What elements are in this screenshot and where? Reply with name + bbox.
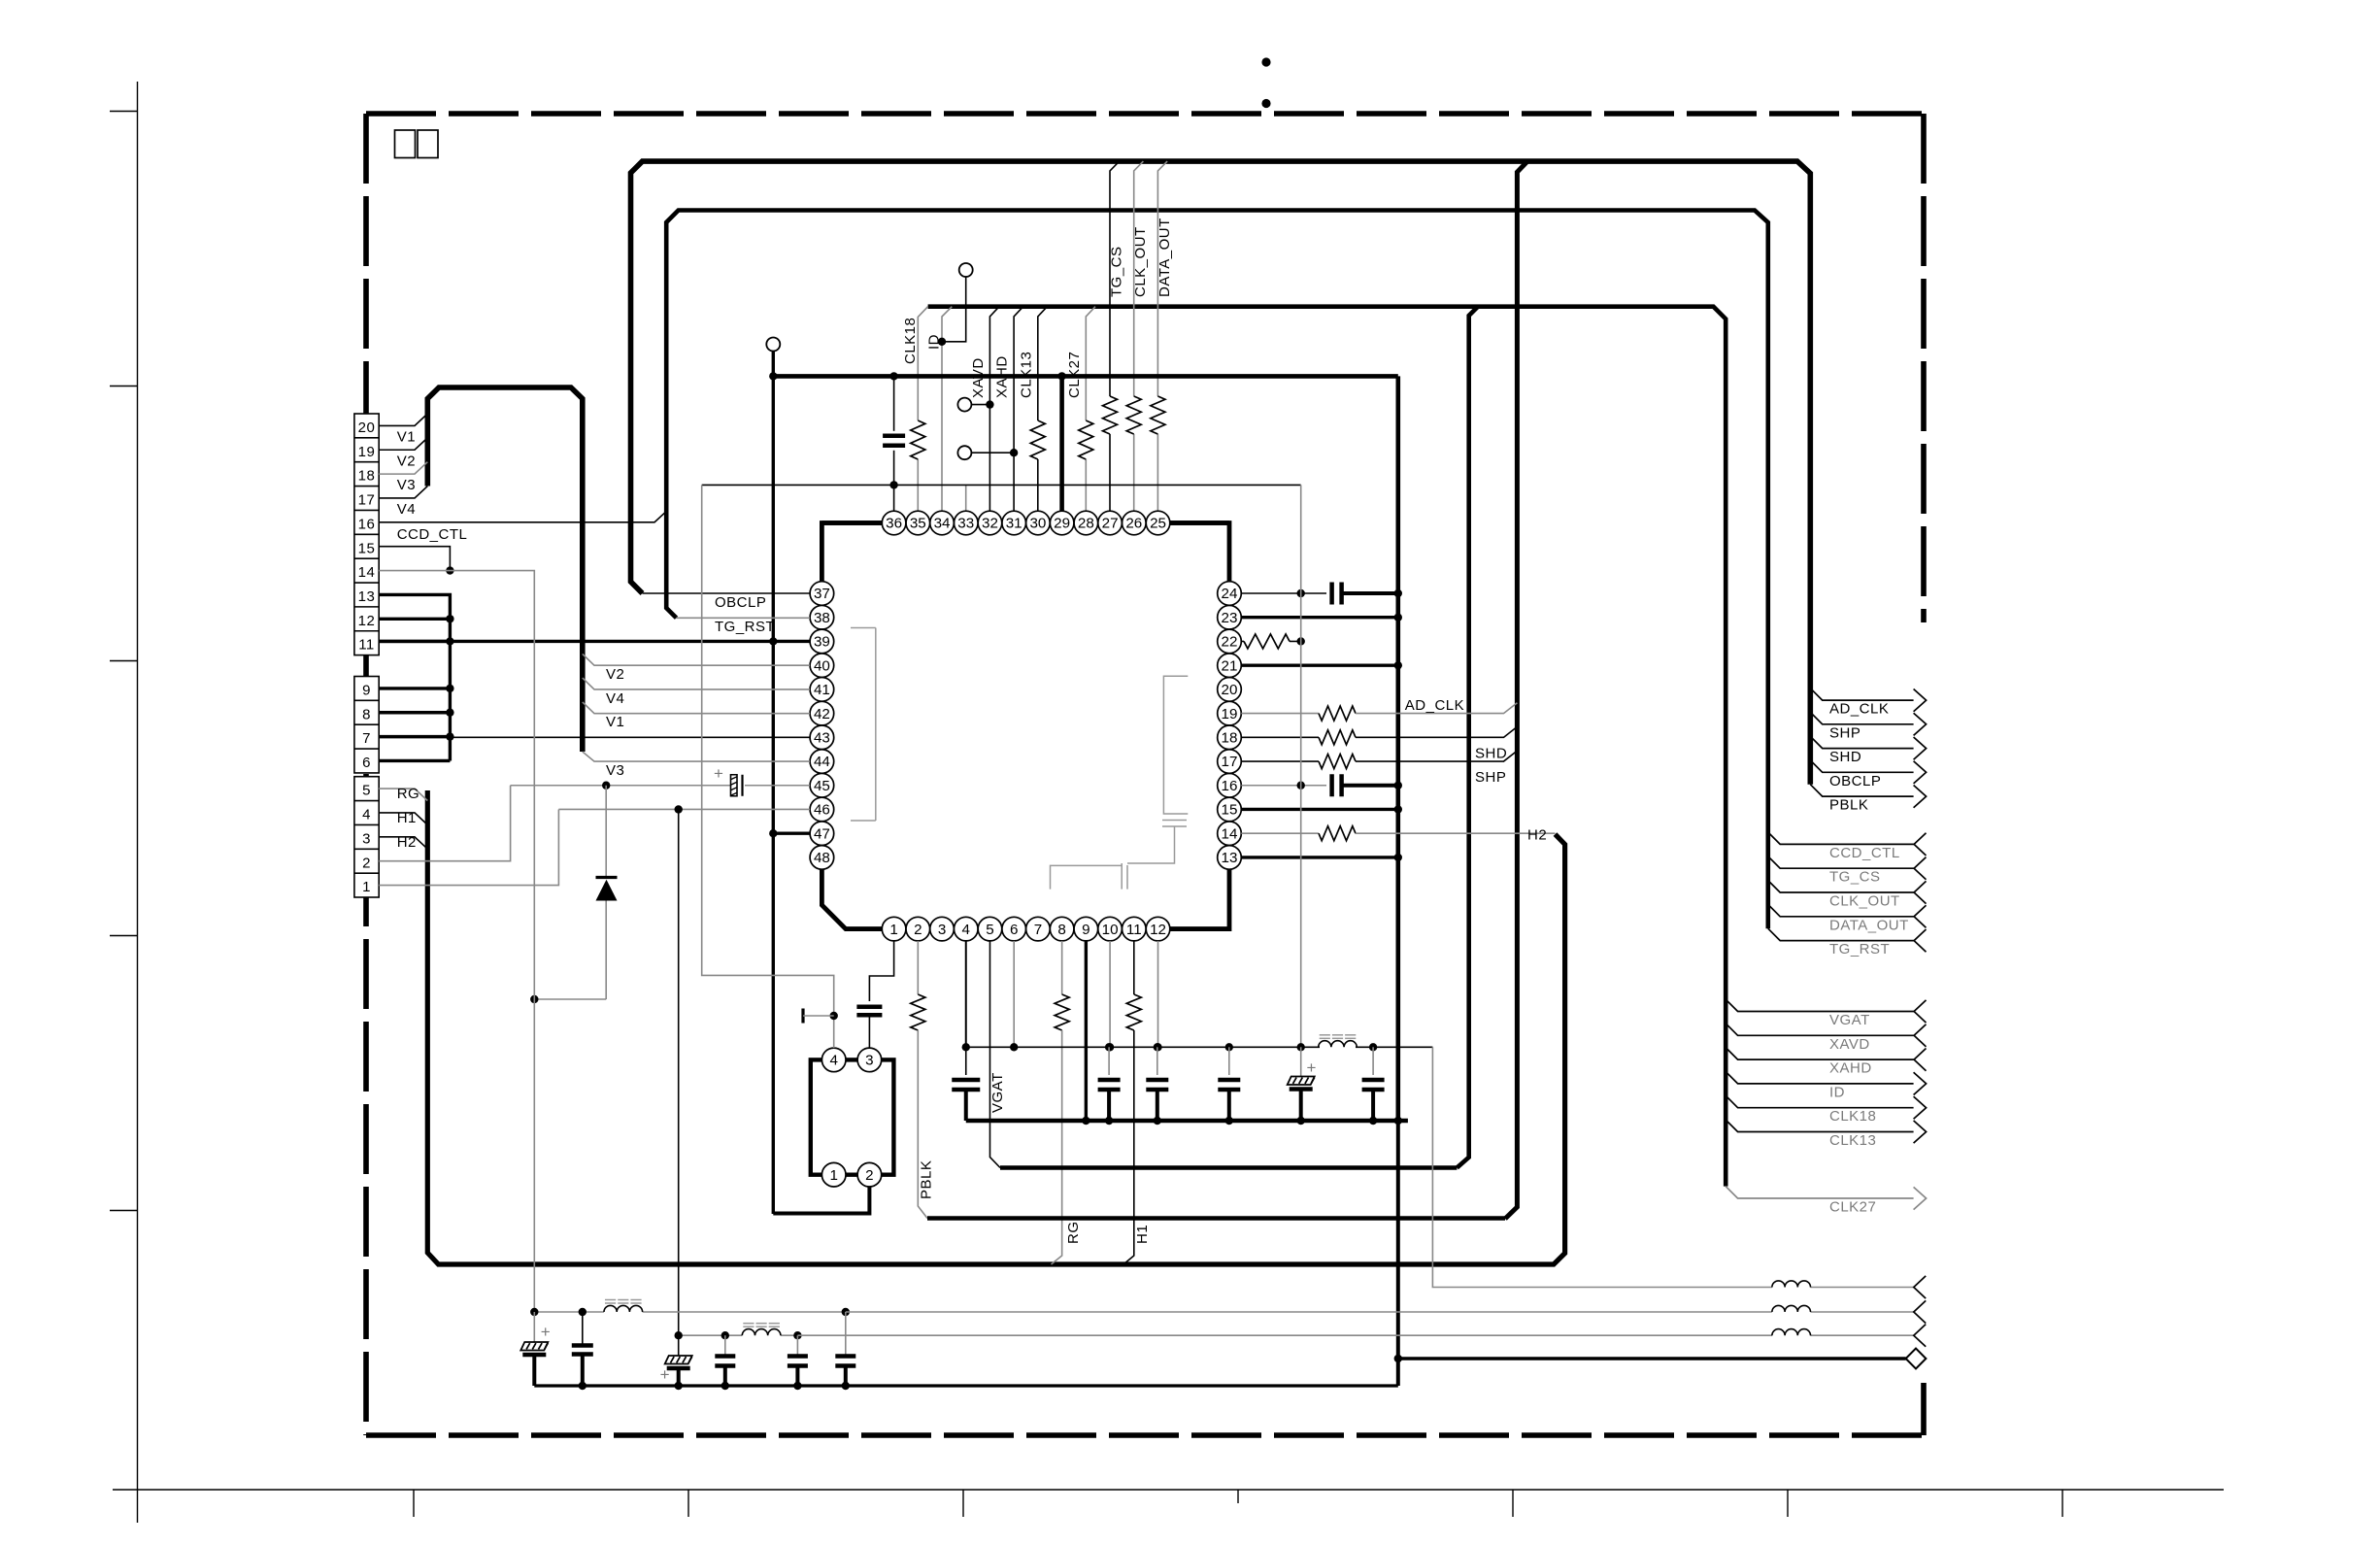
- svg-text:DATA_OUT: DATA_OUT: [1156, 218, 1173, 297]
- polarized capacitor C-pin45 (hatched): [731, 775, 738, 796]
- gray vertical 1340: [1300, 485, 1302, 1047]
- svg-text:38: 38: [814, 610, 830, 626]
- svg-text:2: 2: [865, 1167, 873, 1184]
- svg-text:H1: H1: [397, 810, 417, 826]
- svg-text:17: 17: [358, 492, 376, 509]
- wire RG pin8: [1061, 941, 1063, 994]
- svg-text:35: 35: [910, 516, 926, 532]
- bus D V1-V4 trunk: [427, 387, 583, 752]
- svg-text:V1: V1: [606, 714, 624, 730]
- wire V1 box20 tap: [379, 414, 427, 425]
- svg-text:8: 8: [1057, 922, 1065, 938]
- wire pin43: [450, 736, 810, 738]
- top ground thick line: [773, 374, 1398, 379]
- svg-text:42: 42: [814, 706, 830, 722]
- svg-text:15: 15: [358, 540, 376, 556]
- thick line4 with diamond: [1398, 1357, 1906, 1360]
- svg-text:XAVD: XAVD: [1829, 1036, 1870, 1053]
- svg-text:13: 13: [358, 588, 376, 605]
- svg-text:H2: H2: [397, 834, 417, 851]
- svg-text:9: 9: [1082, 922, 1089, 938]
- svg-text:47: 47: [814, 825, 830, 842]
- svg-text:DATA_OUT: DATA_OUT: [1829, 917, 1909, 933]
- inductor L-lineA: [604, 1305, 643, 1312]
- svg-text:41: 41: [814, 682, 830, 698]
- bottom thick cap bus: [966, 1119, 1408, 1124]
- wire V4 pin41: [583, 678, 810, 689]
- arrow line2: [1914, 1300, 1926, 1323]
- svg-text:28: 28: [1078, 516, 1094, 532]
- wire box15 to box14: [379, 547, 450, 571]
- svg-text:19: 19: [1222, 706, 1238, 722]
- svg-text:AD_CLK: AD_CLK: [1405, 697, 1464, 714]
- capacitor C2 bottom row: [1098, 1078, 1121, 1083]
- svg-text:13: 13: [1222, 850, 1238, 866]
- wire pin9 thick to bus: [1085, 941, 1088, 1121]
- svg-text:4: 4: [362, 807, 371, 823]
- connector CN1 pins 20-11: [354, 414, 379, 655]
- svg-text:VGAT: VGAT: [1829, 1012, 1870, 1028]
- wire pin24 with cap: [1241, 592, 1326, 594]
- connector reference squares: [395, 130, 416, 158]
- svg-text:V1: V1: [397, 428, 416, 445]
- svg-text:4: 4: [829, 1053, 837, 1069]
- test point TP-ID: [959, 263, 973, 277]
- svg-text:44: 44: [814, 754, 830, 770]
- wire diode to vertical 550: [534, 998, 606, 1000]
- flag DATA_OUT: [1768, 904, 1914, 916]
- wire resonator pin2 to ground riser: [773, 1187, 869, 1214]
- svg-text:33: 33: [957, 516, 974, 532]
- resistor R-TG_CS: [1103, 396, 1118, 434]
- wire CLK27 pin28: [1086, 307, 1095, 420]
- flag AD_CLK: [1810, 689, 1913, 700]
- svg-text:RG: RG: [1065, 1222, 1082, 1245]
- capacitor C-b3: [724, 1335, 726, 1356]
- svg-text:V3: V3: [397, 477, 416, 493]
- wire pin23 thick: [1241, 616, 1398, 619]
- svg-text:ID: ID: [1829, 1084, 1845, 1100]
- svg-text:1: 1: [889, 922, 897, 938]
- wire box11 ground to pin39: [379, 640, 450, 643]
- bottom caps line: [966, 1046, 1320, 1048]
- svg-text:TG_RST: TG_RST: [1829, 941, 1890, 957]
- wire TG_CS pin27: [1110, 161, 1120, 396]
- capacitor C-b4: [796, 1335, 798, 1356]
- flag TG_CS: [1768, 856, 1914, 868]
- bus A trunk OBCLP/AD_CLK/SHP/SHD/PBLK: [631, 161, 1811, 785]
- capacitor C-b5: [845, 1312, 847, 1357]
- svg-text:48: 48: [814, 850, 830, 866]
- resistor R-CLK_OUT: [1126, 396, 1141, 434]
- flag VGAT: [1726, 999, 1914, 1011]
- svg-text:36: 36: [886, 516, 902, 532]
- svg-text:16: 16: [358, 516, 376, 532]
- capacitor C4 bottom row: [1218, 1078, 1240, 1083]
- wire DATA_OUT pin25: [1157, 161, 1167, 396]
- svg-text:V4: V4: [397, 501, 416, 518]
- node marker dots top: [1261, 57, 1270, 66]
- svg-text:23: 23: [1222, 610, 1238, 626]
- wire RG box5 tap: [379, 789, 427, 800]
- svg-text:15: 15: [1222, 802, 1238, 819]
- svg-text:3: 3: [865, 1053, 873, 1069]
- VGAT trunk thick: [1000, 1165, 1457, 1170]
- svg-text:TG_CS: TG_CS: [1829, 869, 1881, 886]
- svg-text:SHD: SHD: [1829, 749, 1861, 765]
- IC pins 37-48 left column: [810, 582, 834, 606]
- svg-text:CLK18: CLK18: [1829, 1108, 1876, 1125]
- wire pin10 to caps line: [1109, 941, 1111, 1047]
- wire XAVD pin32: [989, 307, 999, 512]
- svg-text:31: 31: [1006, 516, 1022, 532]
- thin horizontal line under caps: [702, 484, 1301, 486]
- svg-text:3: 3: [362, 830, 371, 847]
- polarized capacitor C-elec1: [533, 1312, 535, 1342]
- resistor R-DATA_OUT: [1151, 396, 1165, 434]
- svg-text:34: 34: [934, 516, 951, 532]
- test point circle left: [766, 338, 780, 352]
- wire CCD_CTL box16 to bus B: [379, 512, 666, 522]
- wire pin47 stub: [773, 832, 810, 835]
- wire pin4 to caps line: [965, 941, 967, 1047]
- wire pin39 ground thick: [379, 640, 810, 643]
- svg-text:+: +: [714, 764, 723, 783]
- svg-text:CLK18: CLK18: [902, 318, 919, 364]
- wire pin13 thick: [1241, 856, 1398, 858]
- flag TG_RST: [1768, 928, 1914, 940]
- wire V1 pin42: [583, 702, 810, 714]
- page frame left ruler: [137, 82, 139, 1523]
- wire H2 box3 tap: [379, 837, 427, 849]
- connector CN1 pins 5-1: [354, 777, 379, 897]
- wire AD_CLK pin19: [1241, 713, 1319, 715]
- svg-text:11: 11: [1126, 922, 1142, 938]
- wire V2 box19 tap: [379, 438, 427, 450]
- svg-text:1: 1: [829, 1167, 837, 1184]
- svg-text:43: 43: [814, 730, 830, 747]
- wire CLK18 pin35: [918, 307, 927, 420]
- inductor L-line2: [1772, 1305, 1811, 1312]
- svg-text:12: 12: [1150, 922, 1166, 938]
- wire pin45 with polarized cap: [511, 785, 730, 787]
- flag PBLK: [1810, 785, 1913, 796]
- inductor L-lineB: [742, 1329, 781, 1336]
- wire pin16 with cap: [1241, 785, 1326, 787]
- svg-text:14: 14: [358, 564, 376, 581]
- svg-text:OBCLP: OBCLP: [715, 594, 766, 611]
- svg-text:18: 18: [1222, 730, 1238, 747]
- svg-text:+: +: [541, 1323, 551, 1341]
- svg-text:SHP: SHP: [1475, 769, 1506, 786]
- svg-text:2: 2: [362, 855, 371, 871]
- svg-text:5: 5: [362, 783, 371, 799]
- svg-text:9: 9: [362, 683, 371, 699]
- connector CN1 pins 9-6: [354, 677, 379, 773]
- svg-text:19: 19: [358, 444, 376, 460]
- gray vertical 699 pin46 drop: [678, 809, 680, 1356]
- svg-text:37: 37: [814, 586, 830, 602]
- svg-text:AD_CLK: AD_CLK: [1829, 701, 1889, 718]
- svg-text:20: 20: [1222, 682, 1238, 698]
- wire SHP pin17: [1241, 760, 1319, 762]
- svg-text:TG_RST: TG_RST: [715, 619, 775, 635]
- IC pins 36-25 top row: [1146, 511, 1170, 535]
- svg-text:7: 7: [362, 730, 371, 747]
- svg-text:14: 14: [1222, 825, 1238, 842]
- flag CCD_CTL: [1768, 832, 1914, 844]
- svg-text:RG: RG: [397, 786, 420, 802]
- flag CLK13: [1726, 1120, 1913, 1131]
- IC pins 1-12 bottom row: [882, 917, 906, 941]
- polarized capacitor C5 electrolytic: [1300, 1047, 1302, 1076]
- gray line 1 to right edge: [1432, 1047, 1437, 1287]
- svg-text:2: 2: [914, 922, 922, 938]
- page frame bottom ruler: [113, 1489, 2224, 1491]
- wire V3 box18 tap: [379, 462, 427, 474]
- wire H1 pin11: [1133, 941, 1135, 994]
- wire box13 thick: [379, 594, 450, 760]
- svg-text:29: 29: [1054, 516, 1070, 532]
- svg-text:CCD_CTL: CCD_CTL: [397, 526, 468, 543]
- wire PBLK pin2: [917, 941, 919, 994]
- ground drop to rail: [1396, 1121, 1400, 1386]
- wire SHD pin18: [1241, 736, 1319, 738]
- bus C branch vertical x1513 from VGAT trunk: [1457, 307, 1478, 1168]
- flag CLK18: [1726, 1095, 1913, 1107]
- wire XAHD pin31: [1014, 307, 1023, 512]
- capacitor C-pin36: [893, 376, 895, 430]
- svg-text:16: 16: [1222, 778, 1238, 794]
- wire box1 to pin46 line: [379, 809, 558, 885]
- flag CLK27: [1726, 1187, 1913, 1198]
- wire box12 thick: [379, 618, 450, 621]
- capacitor C-b2: [582, 1312, 584, 1344]
- capacitor C-pin24: [1329, 583, 1334, 605]
- svg-text:CCD_CTL: CCD_CTL: [1829, 845, 1900, 861]
- svg-text:V4: V4: [606, 690, 624, 707]
- svg-text:SHD: SHD: [1475, 745, 1507, 761]
- capacitor C-VGAT: [965, 1047, 967, 1075]
- wire ID pin34: [942, 307, 952, 512]
- flag XAVD: [1726, 1024, 1914, 1035]
- wire pin33 vertical: [965, 485, 967, 511]
- svg-text:V3: V3: [606, 762, 624, 779]
- flag XAHD: [1726, 1048, 1914, 1059]
- svg-text:30: 30: [1029, 516, 1046, 532]
- bottom ground rail: [534, 1384, 1398, 1387]
- IC internal bracket right: [1163, 676, 1188, 814]
- wire box2 to pin45 line: [379, 786, 510, 861]
- svg-text:24: 24: [1222, 586, 1238, 602]
- wire pin6 to caps line: [1013, 941, 1015, 1047]
- svg-text:7: 7: [1034, 922, 1042, 938]
- svg-text:20: 20: [358, 420, 376, 436]
- svg-text:TG_CS: TG_CS: [1108, 246, 1124, 297]
- svg-text:4: 4: [962, 922, 970, 938]
- flag ID: [1726, 1072, 1913, 1084]
- svg-text:18: 18: [358, 468, 376, 485]
- capacitor C6 bottom row: [1362, 1078, 1385, 1083]
- svg-text:12: 12: [358, 613, 376, 629]
- svg-text:6: 6: [362, 755, 371, 771]
- flag SHP: [1810, 712, 1913, 723]
- wire V2 pin40: [583, 654, 810, 665]
- PBLK trunk thick: [927, 1216, 1505, 1221]
- svg-text:PBLK: PBLK: [1829, 797, 1868, 814]
- svg-text:V2: V2: [606, 666, 624, 683]
- resistor R-pin22: [1241, 640, 1244, 642]
- svg-text:11: 11: [358, 637, 375, 654]
- wire pin15 thick: [1241, 808, 1398, 811]
- svg-text:6: 6: [1010, 922, 1018, 938]
- wire pin46: [558, 808, 810, 810]
- svg-text:25: 25: [1150, 516, 1166, 532]
- svg-text:32: 32: [982, 516, 998, 532]
- svg-text:CLK_OUT: CLK_OUT: [1829, 893, 1900, 910]
- svg-text:1: 1: [362, 879, 371, 895]
- svg-text:40: 40: [814, 657, 830, 674]
- svg-text:21: 21: [1222, 657, 1238, 674]
- ground bus right vertical: [1396, 376, 1401, 1121]
- svg-text:10: 10: [1102, 922, 1119, 938]
- polarized capacitor C-elec2: [665, 1356, 692, 1364]
- wire OBCLP pin37: [643, 592, 811, 594]
- test point TP2: [957, 398, 971, 412]
- resistor R-CLK27: [1079, 420, 1093, 459]
- svg-text:8: 8: [362, 706, 371, 722]
- IC internal detail capacitor marks: [1162, 820, 1187, 822]
- wire to resonator pin4: [702, 485, 834, 1048]
- diode D1: [605, 786, 607, 878]
- flag OBCLP: [1810, 760, 1913, 772]
- bottom-left filter: line A: [534, 1311, 604, 1313]
- svg-text:V2: V2: [397, 453, 416, 469]
- flag CLK_OUT: [1768, 881, 1914, 892]
- svg-text:3: 3: [938, 922, 946, 938]
- svg-text:26: 26: [1125, 516, 1142, 532]
- inductor L-caps line: [1319, 1041, 1358, 1048]
- svg-text:46: 46: [814, 802, 830, 819]
- wire CLK13 pin30: [1038, 307, 1048, 420]
- svg-text:H2: H2: [1527, 827, 1547, 844]
- svg-text:CLK_OUT: CLK_OUT: [1132, 226, 1149, 297]
- svg-text:5: 5: [986, 922, 993, 938]
- IC pins 24-13 right column: [1218, 846, 1242, 870]
- svg-text:SHP: SHP: [1829, 724, 1860, 741]
- capacitor C-resonator: [856, 1005, 882, 1010]
- wire box14 long to vertical 550: [379, 571, 534, 1312]
- wire pin12 to caps line: [1157, 941, 1159, 1047]
- bus A branch vertical x1562: [1505, 161, 1527, 1219]
- svg-text:VGAT: VGAT: [989, 1072, 1006, 1113]
- svg-text:17: 17: [1222, 754, 1238, 770]
- gray stub caps: [1228, 1047, 1230, 1075]
- ground riser left with pin39/pin47 taps: [772, 352, 775, 1215]
- bus B trunk TG_RST/CCD_CTL/TG_CS/CLK_OUT/DATA_OUT: [666, 211, 1768, 929]
- svg-text:27: 27: [1102, 516, 1119, 532]
- svg-text:22: 22: [1222, 634, 1238, 651]
- wire CLK_OUT pin26: [1134, 161, 1144, 396]
- board outline (dashed border): [366, 111, 1924, 117]
- wire pin29 ground riser: [1059, 376, 1064, 511]
- arrow line3: [1914, 1325, 1926, 1347]
- wire V3 pin44: [583, 752, 810, 761]
- ground stub: [801, 1009, 804, 1024]
- svg-text:OBCLP: OBCLP: [1829, 773, 1881, 789]
- wire H2 pin14: [1241, 832, 1319, 834]
- svg-text:H1: H1: [1134, 1225, 1151, 1244]
- wire pin1 to resonator pin3: [869, 941, 893, 1001]
- inductor L-line3: [1772, 1329, 1811, 1336]
- svg-text:CLK27: CLK27: [1829, 1199, 1876, 1216]
- svg-text:XAHD: XAHD: [1829, 1060, 1872, 1077]
- inductor L-line1: [1772, 1281, 1811, 1288]
- arrow line1: [1914, 1276, 1926, 1298]
- svg-text:+: +: [660, 1365, 670, 1384]
- wire V4 box17 tap: [379, 487, 427, 498]
- wires boxes 9-6 thick: [379, 687, 450, 689]
- resistor R-CLK13: [1030, 420, 1045, 459]
- resonator X1 pins: [811, 1059, 894, 1174]
- wire H1 box4 tap: [379, 813, 427, 824]
- svg-text:39: 39: [814, 634, 830, 651]
- wire pin21 thick: [1241, 663, 1398, 666]
- capacitor C-pin16: [1329, 774, 1334, 796]
- svg-text:+: +: [1307, 1058, 1317, 1077]
- wire VGAT pin5: [989, 941, 1000, 1168]
- svg-text:CLK13: CLK13: [1829, 1132, 1876, 1149]
- capacitor C3 bottom row: [1146, 1078, 1168, 1083]
- IC internal bracket left: [851, 627, 876, 629]
- resistor R-CLK18: [911, 420, 925, 459]
- IC U1 outline: [821, 523, 1229, 582]
- bottom-left filter: line B: [679, 1334, 742, 1336]
- bus F RG/H1/H2 trunk: [427, 790, 1564, 1264]
- wire TG_RST pin38: [677, 617, 811, 619]
- svg-text:PBLK: PBLK: [919, 1160, 935, 1199]
- flag SHD: [1810, 736, 1913, 748]
- svg-text:45: 45: [814, 778, 830, 794]
- bus C trunk CLK18/ID/XAVD/XAHD/CLK13/CLK27/VGAT: [928, 307, 1726, 1187]
- test point TP3: [957, 446, 971, 459]
